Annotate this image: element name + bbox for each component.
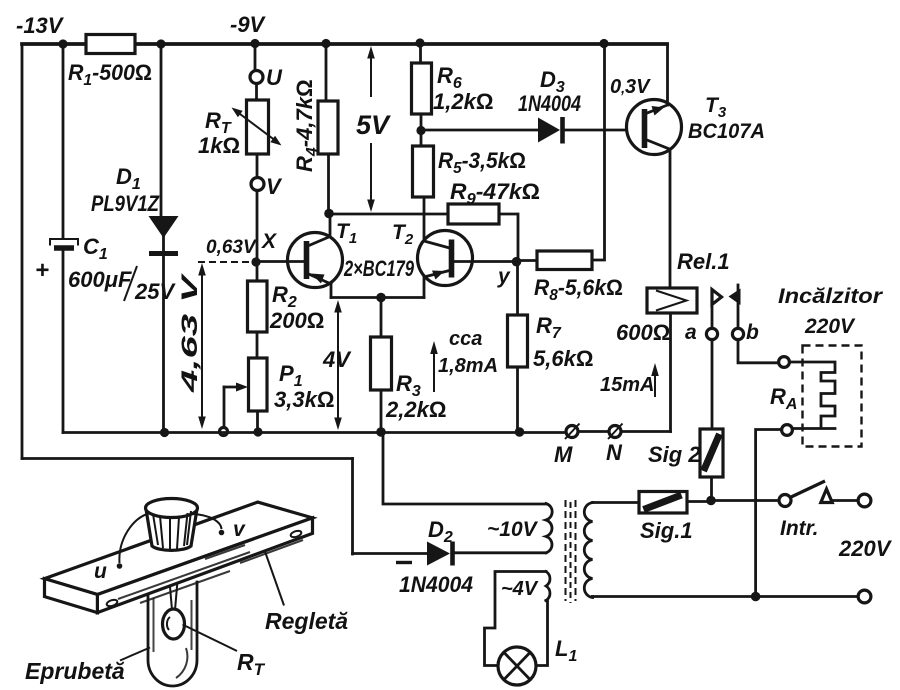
fuse Sig.1 (639, 492, 693, 544)
measure arrow 4,63V (177, 263, 206, 429)
svg-text:1,2kΩ: 1,2kΩ (433, 89, 493, 114)
wire Sig1 to junction to switch (687, 501, 779, 502)
svg-text:N: N (606, 440, 623, 465)
wire R6 to node (420, 114, 423, 146)
thermistor holder cylinder (146, 499, 198, 551)
svg-text:X: X (261, 230, 278, 253)
svg-text:M: M (554, 442, 573, 467)
node T1 collector (324, 209, 334, 219)
svg-text:R8-5,6kΩ: R8-5,6kΩ (534, 275, 623, 304)
svg-text:220V: 220V (838, 536, 893, 561)
svg-text:1kΩ: 1kΩ (198, 133, 240, 158)
node 220V/RA junction (751, 592, 761, 602)
transformer winding ~10V (487, 504, 552, 553)
wire dashed 0,63V reference (198, 261, 249, 263)
terminal V (251, 178, 264, 191)
zener diode D1 PL9V1Z (91, 164, 179, 254)
svg-text:R4-4,7kΩ: R4-4,7kΩ (292, 79, 321, 172)
wire U to RT (255, 84, 258, 101)
node y (512, 257, 522, 267)
resistor R7 5,6k (508, 313, 594, 371)
svg-text:V: V (266, 174, 283, 199)
heater RA dashed enclosure (803, 346, 862, 447)
wire D2 anode riser (351, 459, 354, 555)
svg-text:5,6kΩ: 5,6kΩ (533, 346, 593, 371)
current arrow 15mA (600, 363, 659, 397)
svg-text:b: b (746, 321, 759, 344)
svg-text:u: u (94, 560, 107, 583)
svg-text:200Ω: 200Ω (269, 308, 324, 333)
node junction D1/bus (156, 39, 165, 48)
svg-text:PL9V1Z: PL9V1Z (91, 191, 160, 216)
terminal 220V bottom (858, 590, 871, 603)
wire V to node X (256, 191, 259, 263)
wire R5 to T2 collector (423, 197, 426, 241)
measure arrow 5V (356, 46, 391, 212)
transistor T1 (260, 214, 357, 298)
svg-text:Eprubetă: Eprubetă (25, 658, 125, 684)
wire bus corner to T3 emitter (666, 44, 669, 105)
node P1/rail (253, 427, 262, 436)
transformer primary 220V winding (584, 503, 592, 598)
transistor T3 BC107A (627, 94, 766, 155)
wire lamp loop (485, 572, 547, 666)
wire y to R7 (516, 262, 519, 315)
thermistor bead and leads inside tube (163, 575, 185, 639)
wire R7 to rail (516, 367, 519, 432)
transformer core (566, 500, 576, 603)
wire contact b to heater RA (738, 340, 779, 363)
wire T3 collector to relay coil (669, 150, 672, 288)
svg-text:R5-3,5kΩ: R5-3,5kΩ (438, 148, 526, 177)
svg-text:v: v (233, 518, 246, 541)
wire N to relay coil branch (621, 430, 671, 433)
svg-text:y: y (497, 265, 511, 288)
svg-text:220V: 220V (804, 315, 856, 338)
svg-text:600Ω: 600Ω (616, 320, 670, 345)
node R3/emitter rail (376, 293, 386, 303)
wire D3 to T3 base (564, 129, 643, 132)
wire RT to V (256, 154, 259, 178)
svg-text:1,8mA: 1,8mA (438, 355, 498, 377)
fuse Sig 2 (648, 429, 723, 477)
measure arrow 4V (322, 300, 352, 430)
capacitor C1 (35, 234, 176, 304)
wire R4 branch (325, 44, 328, 101)
wire D2 anode (353, 552, 428, 555)
transistor T2 (392, 221, 512, 298)
wire R8 riser to bus (592, 44, 605, 260)
svg-text:~4V: ~4V (501, 578, 539, 600)
svg-text:1N4004: 1N4004 (518, 91, 581, 116)
label Regleta with leader (265, 552, 348, 635)
node Sig1/Sig2/Intr junction (706, 496, 716, 506)
wire R4 to collector node (327, 154, 330, 213)
wire R2 to P1 (256, 332, 259, 358)
wire collector rail to R9 (329, 213, 448, 216)
wire 220V bottom line (593, 595, 859, 598)
svg-text:Incălzitor: Incălzitor (778, 285, 884, 308)
svg-text:Regletă: Regletă (265, 608, 348, 634)
node junction RT/bus (250, 39, 259, 48)
resistor R2 200 (248, 281, 325, 333)
label RT with leader (183, 625, 266, 680)
resistor R5 3,5k (413, 146, 527, 197)
svg-text:4V: 4V (322, 347, 352, 372)
node R6/R5/D3 (416, 126, 425, 135)
terminal RA bottom (782, 425, 793, 436)
wire v lead (193, 514, 246, 541)
wire M to N (578, 430, 609, 433)
node junction R4/bus (321, 39, 330, 48)
svg-text:0,3V: 0,3V (610, 76, 651, 98)
node R7/rail (515, 427, 525, 437)
svg-text:R1-500Ω: R1-500Ω (68, 60, 152, 89)
wire winding to D2 (455, 551, 546, 554)
svg-text:+: + (35, 257, 49, 284)
svg-text:0,63V: 0,63V (206, 237, 257, 258)
svg-text:R9-47kΩ: R9-47kΩ (450, 179, 540, 208)
test tube Eprubeta (148, 582, 197, 686)
resistor R3 2,2k (371, 337, 447, 422)
lamp L1 (498, 636, 577, 685)
heater element RA (790, 362, 836, 429)
svg-text:15mA: 15mA (600, 374, 654, 396)
wire bottom rail left section (63, 431, 566, 434)
svg-text:a: a (685, 321, 697, 344)
wire C1 branch (62, 44, 65, 433)
node junction C1/bus (58, 39, 67, 48)
svg-text:3,3kΩ: 3,3kΩ (274, 387, 334, 412)
wire emitter rail (331, 296, 424, 299)
wire bottom -13V/D2 horizontal (22, 457, 353, 460)
transformer winding ~4V (501, 572, 550, 601)
resistor R8 5,6k (534, 251, 623, 304)
terminal RA top (779, 357, 790, 368)
svg-text:Sig.1: Sig.1 (640, 518, 693, 543)
terminal U (250, 71, 263, 84)
relay coil Rel.1 600ohm (616, 288, 697, 345)
thermistor RT 1k (198, 100, 282, 158)
terminal M (554, 424, 580, 468)
wire rail to R3 (380, 298, 383, 338)
node R3/rail (376, 427, 386, 437)
switch Intr. (779, 481, 858, 540)
wire contact a to Sig2 (711, 340, 714, 430)
svg-text:25V: 25V (134, 279, 176, 304)
potentiometer P1 3,3k (220, 358, 335, 436)
wire R6 branch (419, 44, 422, 63)
resistor R6 1,2k (412, 63, 494, 114)
wire R9 to node y (499, 214, 518, 262)
svg-text:Intr.: Intr. (780, 517, 819, 540)
svg-text:2,2kΩ: 2,2kΩ (385, 397, 446, 422)
wire node to D3 (421, 129, 538, 132)
wire RT branch top (254, 44, 257, 71)
svg-text:-13V: -13V (16, 13, 65, 38)
svg-text:U: U (266, 65, 283, 90)
diode D3 1N4004 (518, 67, 581, 144)
node junction R6/bus (415, 38, 424, 47)
wire RA bottom to 220V line (756, 430, 782, 597)
svg-text:Rel.1: Rel.1 (677, 249, 730, 274)
terminal N (606, 424, 623, 466)
terminal 220V top (858, 494, 871, 507)
wire R8 to node y (520, 259, 537, 262)
wire R3 to rail (380, 390, 383, 432)
wire rail to transformer tap (381, 433, 546, 505)
resistor R1 (68, 35, 152, 90)
wire coil to bottom rail (669, 313, 672, 432)
svg-text:4,63 V: 4,63 V (177, 272, 202, 394)
svg-text:Sig 2: Sig 2 (648, 442, 701, 467)
diode D2 1N4004 (396, 517, 473, 597)
resistor R9 47k (448, 179, 540, 224)
relay contact a (685, 290, 722, 345)
svg-text:BC107A: BC107A (688, 120, 765, 143)
wire -9V top bus (22, 42, 667, 46)
wire X to R2 (256, 262, 259, 281)
current arrow cca 1,8mA (430, 328, 498, 392)
wire lamp to winding (536, 601, 548, 666)
relay contact b (729, 285, 760, 344)
svg-text:-9V: -9V (230, 12, 267, 37)
node X (251, 257, 260, 266)
svg-text:1N4004: 1N4004 (399, 572, 473, 597)
wire D1 branch (161, 44, 164, 433)
wire Sig2 to junction (710, 477, 713, 501)
svg-text:600μF: 600μF (68, 267, 132, 292)
wooden strip Regleta (45, 502, 313, 612)
resistor R4 4,7k (292, 79, 338, 172)
label Eprubeta with leader (25, 648, 150, 685)
wire u lead (94, 513, 150, 583)
node D1/rail (160, 428, 169, 437)
svg-text:5V: 5V (356, 110, 391, 140)
svg-text:2×BC179: 2×BC179 (343, 256, 414, 281)
node junction R8/bus (599, 39, 608, 48)
svg-text:cca: cca (449, 328, 482, 350)
wire P1 to rail (256, 411, 259, 432)
wire left edge (-13V feed from D2) (21, 44, 24, 459)
wire transformer to Sig1 (593, 501, 640, 504)
svg-text:~10V: ~10V (487, 518, 539, 541)
